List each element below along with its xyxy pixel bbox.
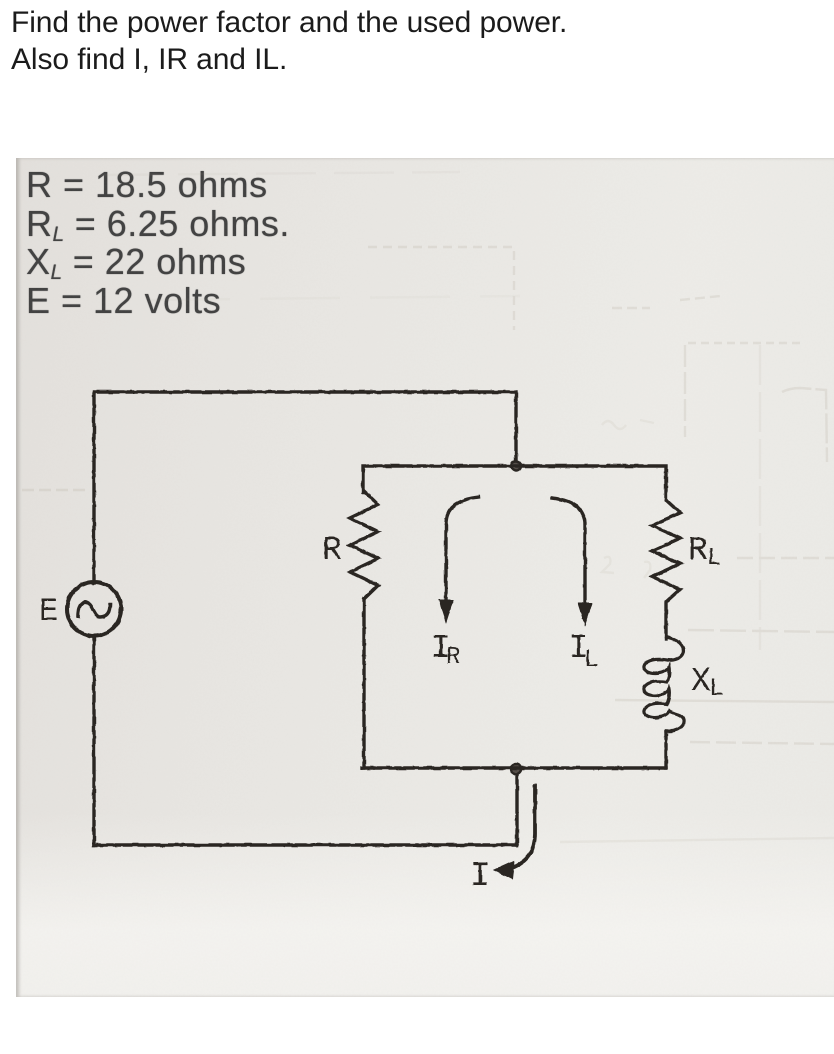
svg-text:L: L	[584, 647, 598, 674]
wire: bottom riser to node B	[515, 769, 518, 845]
svg-text:I: I	[470, 858, 490, 896]
photo of textbook problem	[16, 158, 834, 997]
wire: XL to bottom	[664, 731, 667, 768]
svg-text:X: X	[691, 663, 711, 700]
source E (circle with sine)	[67, 582, 121, 636]
paper grain on photo	[16, 158, 834, 997]
wire: outer bottom	[94, 843, 517, 846]
current arrow IR	[446, 497, 478, 601]
node B (bottom junction)	[511, 764, 521, 774]
svg-text:R: R	[688, 532, 708, 569]
inductor XL	[644, 637, 684, 731]
svg-text:R: R	[446, 644, 460, 671]
svg-text:E: E	[39, 593, 58, 630]
wire: left side below source	[92, 636, 95, 845]
svg-text:R: R	[322, 532, 342, 569]
wire: outer loop top-left	[94, 392, 516, 583]
svg-text:L: L	[709, 674, 724, 703]
wire: between RL and XL	[664, 602, 667, 639]
current arrow IL	[552, 498, 585, 602]
wire: parallel section bottom	[362, 766, 666, 769]
wire: parallel section top	[363, 466, 666, 500]
node A (top junction)	[511, 461, 521, 471]
svg-text:L: L	[707, 545, 721, 572]
faint bleed-through artifacts	[22, 172, 834, 842]
wire: R branch lower	[362, 599, 365, 768]
sine symbol inside source	[78, 602, 110, 617]
resistor R	[350, 491, 378, 599]
resistor RL	[652, 500, 680, 602]
current arrow I	[512, 786, 535, 868]
